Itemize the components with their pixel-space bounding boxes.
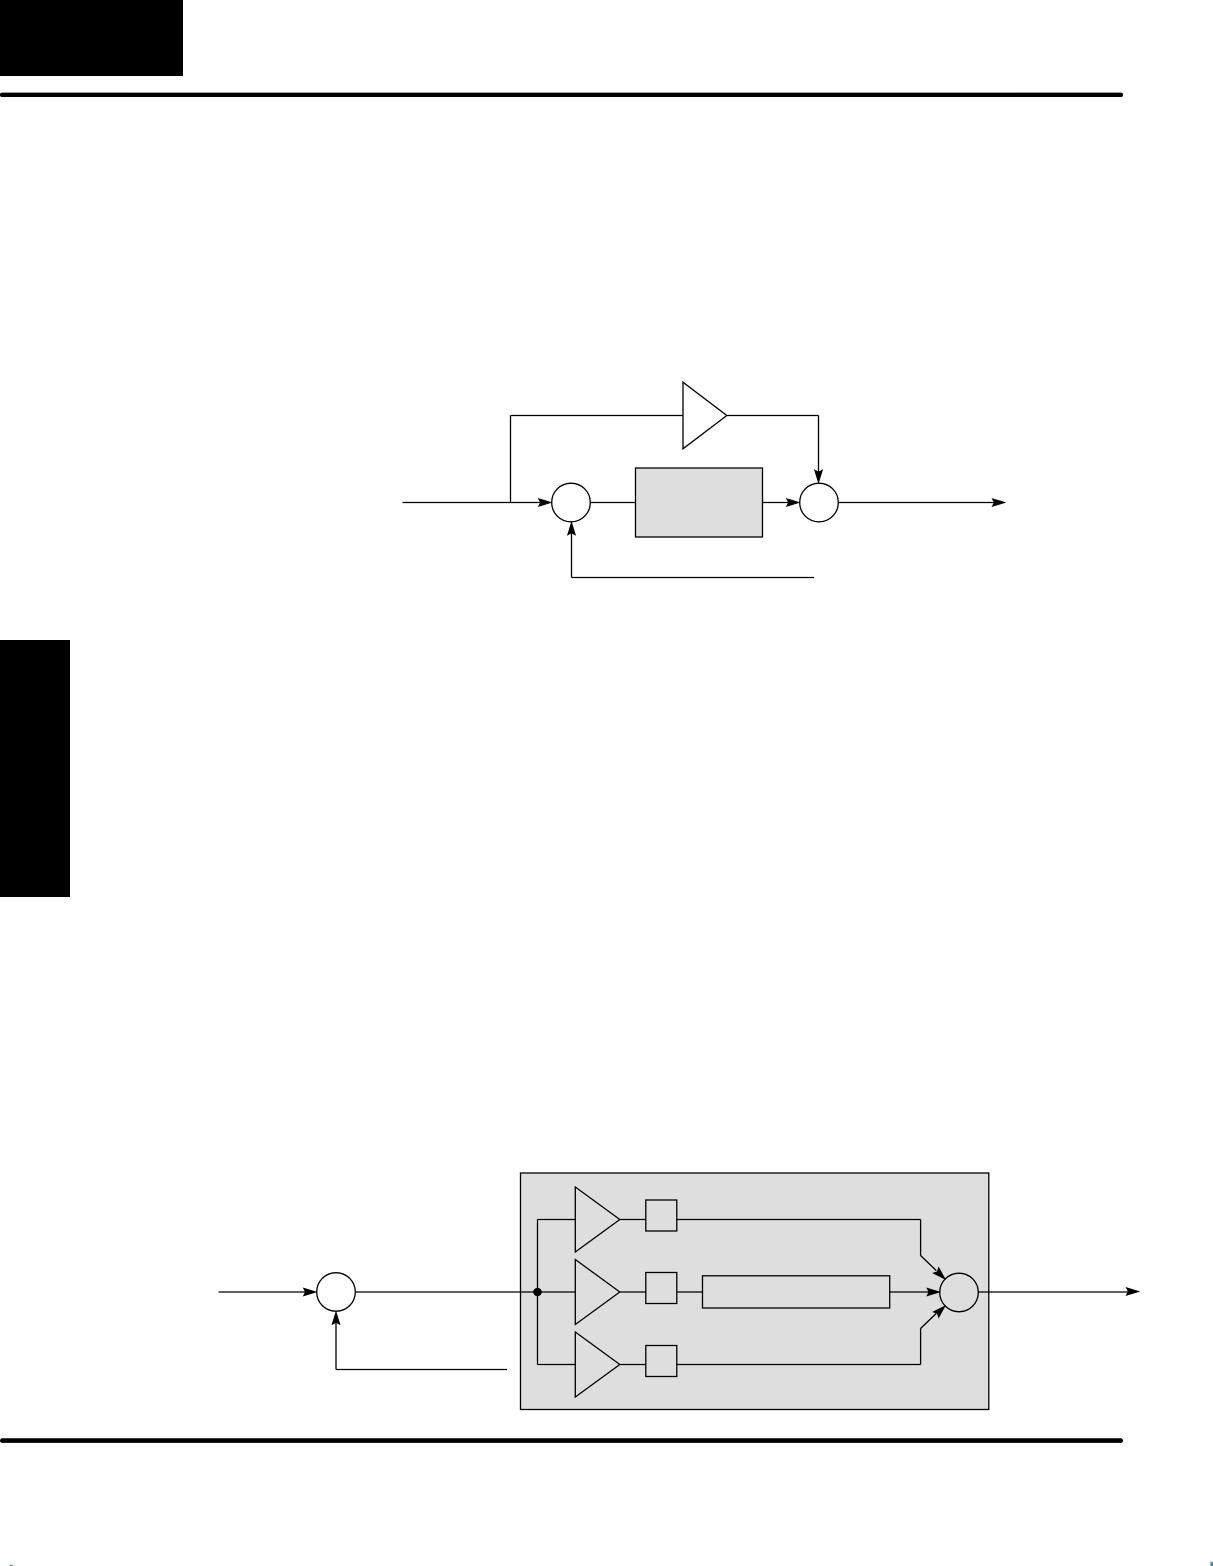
wire: feedback vertical into S3 bbox=[335, 1323, 337, 1370]
chapter side tab bbox=[0, 640, 70, 897]
arrowhead diagram1 output bbox=[992, 499, 1005, 507]
wire: block to summer S2 bbox=[763, 502, 789, 504]
wire: summer S3 to branch node bbox=[355, 1291, 537, 1293]
wire: stub to top gain bbox=[538, 1219, 576, 1221]
footer page-number speck left bbox=[10, 1565, 13, 1566]
wire: drop into summer S2 bbox=[818, 416, 820, 473]
wire: bottom row diagonal into S4 bbox=[921, 1313, 937, 1328]
wire: feedforward branch horizontal to gain bbox=[511, 415, 684, 417]
wire: top row diagonal into S4 bbox=[921, 1256, 937, 1271]
branch node dot bbox=[533, 1288, 542, 1297]
wire: diagram2 input bbox=[219, 1291, 306, 1293]
summer S1 circle bbox=[552, 483, 591, 522]
wire: feedforward branch vertical bbox=[510, 416, 512, 503]
gain triangle bottom band bbox=[575, 1332, 620, 1397]
arrowhead feedback into S3 bottom bbox=[332, 1312, 340, 1325]
wire: diagram2 output bbox=[978, 1291, 1128, 1293]
arrowhead diagram2 output bbox=[1126, 1288, 1139, 1296]
header rule bbox=[0, 93, 1123, 97]
wire: diagram1 input bbox=[403, 502, 541, 504]
wire: diagram1 output bbox=[839, 502, 995, 504]
wire: stub to middle gain bbox=[538, 1291, 576, 1293]
arrowhead bottom diagonal into S4 bbox=[933, 1306, 945, 1318]
wire: top row horizontal bbox=[677, 1219, 921, 1221]
filter bank gray box bbox=[521, 1173, 989, 1410]
wire: middle gain to square bbox=[620, 1291, 646, 1293]
coefficient square bottom bbox=[646, 1346, 677, 1377]
gain triangle top band bbox=[575, 1187, 620, 1252]
gain triangle K (feedforward) bbox=[683, 382, 727, 449]
wire: summer S1 to block bbox=[591, 502, 636, 504]
summer S4 circle bbox=[940, 1273, 979, 1312]
wire: bottom row horizontal bbox=[677, 1364, 921, 1366]
delay line block bbox=[703, 1276, 890, 1308]
wire: branch vertical bus bbox=[537, 1220, 539, 1365]
process block G (gray) bbox=[636, 468, 763, 537]
wire: bottom row corner rise bbox=[920, 1329, 922, 1365]
arrowhead into S2 left bbox=[787, 499, 800, 507]
arrowhead feedback into S1 bottom bbox=[568, 522, 576, 535]
coefficient square top bbox=[646, 1200, 677, 1231]
wire: top row corner drop bbox=[920, 1220, 922, 1256]
wire: feedback vertical into S1 bbox=[571, 534, 573, 578]
arrowhead into S1 left bbox=[539, 499, 552, 507]
footer speck right bbox=[1210, 1562, 1213, 1566]
wire: stub to bottom gain bbox=[538, 1364, 576, 1366]
wire: feedback horizontal bbox=[572, 577, 815, 579]
wire: feedback horizontal bbox=[336, 1369, 507, 1371]
wire: top gain to square bbox=[620, 1219, 646, 1221]
header black block bbox=[0, 0, 183, 76]
arrowhead into S2 top bbox=[815, 470, 823, 483]
wire: bottom gain to square bbox=[620, 1364, 646, 1366]
wire: middle square to delay block bbox=[677, 1291, 703, 1293]
wire: delay block to S4 bbox=[890, 1291, 929, 1293]
coefficient square middle bbox=[646, 1273, 677, 1304]
gain triangle middle band bbox=[575, 1260, 620, 1325]
footer rule bbox=[0, 1438, 1123, 1443]
arrowhead middle into S4 left bbox=[927, 1288, 940, 1296]
arrowhead into S3 left bbox=[304, 1288, 317, 1296]
summer S3 circle bbox=[317, 1273, 356, 1312]
summer S2 circle bbox=[800, 483, 839, 522]
wire: gain output to corner bbox=[727, 415, 819, 417]
arrowhead top diagonal into S4 bbox=[933, 1268, 945, 1280]
